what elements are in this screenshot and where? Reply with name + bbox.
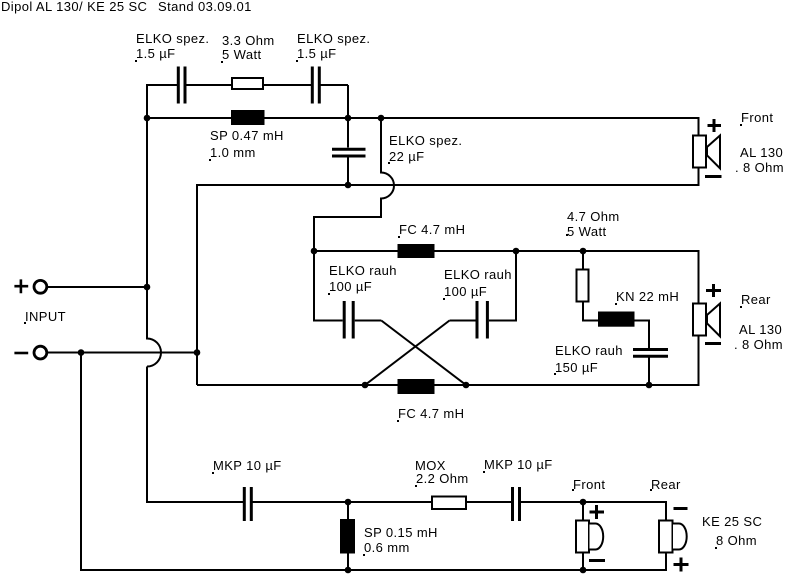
label Front AL130	[741, 111, 773, 124]
label C2	[297, 32, 370, 45]
label C8	[484, 458, 553, 471]
tweeter Front KE dome	[590, 524, 604, 550]
label INPUT	[25, 310, 66, 323]
inductor L3 FC 4.7 mH bottom	[398, 379, 435, 394]
junction node rail F / C6	[646, 382, 653, 389]
junction node rail B / left bus	[144, 115, 151, 122]
wire: input minus to x=197	[47, 352, 198, 354]
label C5	[444, 268, 512, 281]
resistor R1 3.3 Ohm 5 Watt	[232, 78, 263, 89]
wire: outer ground loop x=81 and rail I	[81, 353, 666, 571]
capacitor C4 ELKO rauh 100uF left leads	[314, 251, 381, 321]
label L1	[210, 129, 284, 142]
wire: rail F bottom mid branch to Rear -	[197, 337, 699, 386]
junction node rail I / Front KE	[580, 567, 587, 574]
junction node input plus / left bus	[144, 284, 151, 291]
capacitor C1 ELKO spez. 1.5uF plates	[178, 67, 185, 104]
junction node rail I / L5	[345, 567, 352, 574]
terminal input minus	[34, 346, 47, 359]
label KE tweeters	[702, 515, 762, 528]
tweeter Rear KE dome	[673, 524, 687, 550]
junction node input minus / x=197	[194, 349, 201, 356]
junction node rail D / C5	[513, 248, 520, 255]
label L4	[616, 290, 679, 303]
label L3	[398, 407, 464, 420]
label C4	[329, 264, 397, 277]
speaker Front AL130 frame	[693, 136, 706, 168]
label R3	[415, 459, 446, 472]
wire: rail H tweeter branch	[147, 502, 666, 520]
wire: rail C to Front -	[197, 169, 699, 186]
inductor L5 box	[340, 519, 355, 554]
speaker Front AL130 horn	[707, 136, 720, 169]
minus sign Rear AL130	[705, 342, 721, 345]
junction node rail H / Front KE	[580, 499, 587, 506]
plus sign Rear KE	[674, 558, 689, 572]
inductor L1 SP 0.47 mH	[231, 110, 265, 125]
capacitor C8 MKP 10uF plates	[513, 487, 520, 521]
label C3	[389, 134, 462, 147]
speaker Rear AL130 horn	[707, 304, 720, 337]
resistor R2 box	[577, 270, 589, 302]
capacitor C5 ELKO rauh 100uF right leads	[450, 251, 517, 321]
junction node rail B / hopover wire	[378, 115, 385, 122]
wire: KN to C6	[635, 321, 650, 386]
title	[1, 0, 147, 13]
minus sign Front AL130	[705, 175, 722, 178]
wire: top branch rail A	[147, 85, 348, 118]
junction node rail B / C3	[345, 115, 352, 122]
plus sign input	[14, 279, 28, 293]
wire: hopover wire from node B down to rail D	[314, 118, 394, 251]
label Rear AL130	[741, 293, 771, 306]
label L2	[399, 223, 465, 236]
label C6	[555, 344, 623, 357]
label R1	[222, 34, 275, 47]
label Front tweeter	[573, 478, 605, 491]
inductor L5 SP 0.15 mH leads	[347, 502, 349, 570]
junction node input minus / ground loop	[78, 349, 85, 356]
label C7	[213, 459, 282, 472]
minus sign input	[14, 352, 28, 355]
capacitor C4 plates	[344, 301, 353, 339]
inductor L2 FC 4.7 mH	[398, 244, 435, 258]
capacitor C7 MKP 10uF plates	[244, 487, 251, 521]
inductor L4 KN 22 mH	[598, 312, 635, 327]
capacitor C6 ELKO rauh 150uF plates	[633, 350, 668, 357]
tweeter Front KE frame and leads	[582, 502, 584, 570]
label L5	[364, 526, 438, 539]
wire: rail B inductor branch to Front +	[147, 118, 699, 135]
wire: diagonal from C4 to node F right	[381, 321, 466, 386]
speaker Rear AL130 frame	[693, 304, 706, 336]
plus sign Rear AL130	[706, 284, 721, 297]
label R2	[567, 210, 620, 223]
junction node rail H / L5	[345, 499, 352, 506]
minus sign Rear KE	[674, 507, 688, 510]
terminal input plus	[34, 280, 47, 293]
junction node rail D / R2	[580, 248, 587, 255]
minus sign Front KE	[589, 559, 605, 562]
capacitor C2 ELKO spez. 1.5uF plates	[312, 67, 319, 104]
junction node rail F / diagonal left	[362, 382, 369, 389]
resistor R3 MOX 2.2 Ohm	[432, 497, 466, 510]
label Rear tweeter	[651, 478, 681, 491]
label C1	[136, 32, 209, 45]
junction node rail D left	[311, 248, 318, 255]
capacitor C5 plates	[477, 301, 487, 339]
resistor R2 4.7 Ohm 5 Watt leads	[583, 251, 598, 321]
wire: rail D FC branch to Rear +	[314, 251, 699, 303]
capacitor C3 ELKO spez. 22uF leads	[347, 118, 349, 185]
wire: diagonal from C5 to node F left	[365, 321, 450, 386]
tweeter Rear KE frame	[659, 521, 673, 553]
junction node rail C / C3	[345, 182, 352, 189]
junction node rail F / diagonal right	[463, 382, 470, 389]
plus sign Front KE	[590, 505, 605, 519]
wire: input plus to bus	[47, 286, 148, 288]
plus sign Front AL130	[708, 119, 722, 132]
wire: x=197 vertical from rail C to rail F	[196, 184, 198, 385]
capacitor C3 plates	[332, 149, 366, 156]
wire: left vertical bus x=147 with hop over minus wire	[147, 84, 161, 503]
